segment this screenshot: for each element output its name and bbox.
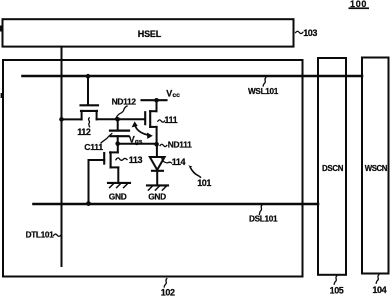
wire WSL101 (write scan line) <box>23 75 363 78</box>
svg-text:DSCN: DSCN <box>322 164 344 173</box>
label 104 <box>376 275 379 283</box>
junction dot on DSL101 <box>86 201 91 206</box>
svg-text:104: 104 <box>372 285 386 295</box>
wire: transistor 112 right terminal to gate of transistor 111 (net ND112) <box>97 118 145 120</box>
svg-text:102: 102 <box>161 287 175 297</box>
label 114 <box>162 158 172 163</box>
label 103 <box>296 31 303 33</box>
transistor 113 (switch transistor, gate on left) <box>117 144 119 153</box>
node ND111 (junction dot) <box>154 142 159 147</box>
label ND111 <box>160 144 167 146</box>
capacitor C111 (storage capacitor) <box>117 119 119 130</box>
svg-text:HSEL: HSEL <box>138 29 162 39</box>
label 101 (pixel circuit pointer) <box>188 165 192 167</box>
wire DTL101 (vertical data line from HSEL) <box>61 47 63 266</box>
node ND112 (junction dot) <box>115 117 120 122</box>
label 105 <box>334 276 337 284</box>
svg-text:103: 103 <box>303 28 317 38</box>
ground symbol GND (below transistor 113) <box>108 182 130 184</box>
light emitting diode 114 <box>156 144 158 157</box>
WSCN block 104 <box>362 58 389 274</box>
junction dot at C111 bottom plate <box>115 141 120 146</box>
svg-text:DSL101: DSL101 <box>249 215 278 224</box>
transistor 112 (sampling transistor, gate on top) <box>81 104 99 106</box>
svg-text:WSCN: WSCN <box>365 164 388 173</box>
svg-text:WSL101: WSL101 <box>248 87 279 96</box>
ground symbol GND (below diode 114) <box>147 184 168 186</box>
label DSL101 <box>259 205 262 215</box>
junction dot on WSL101 <box>86 74 91 79</box>
svg-text:GND: GND <box>109 191 127 201</box>
svg-text:101: 101 <box>197 178 211 188</box>
power rail Vcc <box>142 99 167 101</box>
svg-text:DTL101: DTL101 <box>26 230 55 239</box>
Vgs arrow (curved double-headed arrow between gate and source) <box>135 125 149 135</box>
svg-text:111: 111 <box>164 115 177 125</box>
wire: gate of transistor 112 up to WSL101 <box>87 76 89 104</box>
junction dot on Vcc rail <box>154 98 159 103</box>
label 112 <box>88 118 89 127</box>
wire: DTL101 to left terminal of transistor 112 <box>62 118 82 120</box>
figure number 100 <box>349 0 370 9</box>
svg-text:113: 113 <box>129 155 143 165</box>
svg-text:105: 105 <box>330 285 344 295</box>
horizontal selector block HSEL (U103) <box>0 19 294 46</box>
pixel array block 102 (outer box) <box>1 60 303 277</box>
svg-text:ND111: ND111 <box>168 140 192 150</box>
wire: gate of transistor 113 down to DSL101 <box>88 160 90 204</box>
label 102 <box>164 279 167 287</box>
wire: C111 bottom plate to node ND111 <box>118 143 157 145</box>
junction dot on DTL101 <box>59 117 64 122</box>
label 113 <box>116 158 127 160</box>
wire DSL101 (drive scan line) <box>34 203 319 206</box>
transistor 111 (drive transistor, gate on left) <box>156 100 158 111</box>
svg-text:ND112: ND112 <box>112 97 137 107</box>
label WSL101 <box>263 78 266 86</box>
svg-text:114: 114 <box>172 157 186 167</box>
label 111 <box>158 120 165 122</box>
svg-text:112: 112 <box>77 127 91 137</box>
svg-text:GND: GND <box>148 191 166 201</box>
DSCN block 105 <box>318 58 346 275</box>
